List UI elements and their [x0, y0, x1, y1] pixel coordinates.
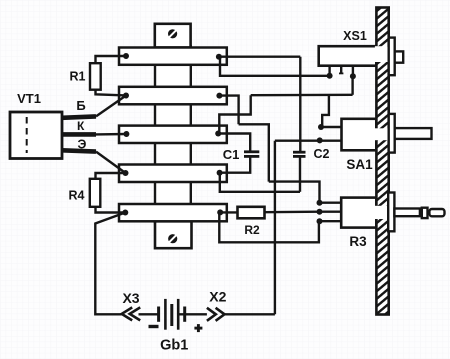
capacitor C1	[218, 134, 259, 173]
terminal strip bar5	[119, 204, 227, 221]
wire bar1 right dot to descender of XS1 line	[219, 56, 300, 58]
wire battery to X2 connector	[178, 313, 207, 315]
chassis panel hatched	[375, 8, 390, 315]
node XS1 pin3	[350, 73, 356, 79]
svg-text:Gb1: Gb1	[160, 338, 188, 354]
resistor R1	[90, 56, 126, 95]
XS1 pin 3	[352, 66, 354, 77]
svg-text:R1: R1	[70, 70, 86, 84]
svg-text:VT1: VT1	[17, 91, 41, 106]
svg-text:C2: C2	[314, 147, 330, 161]
label plus	[194, 324, 202, 332]
top screw	[168, 29, 177, 38]
R3 shaft collar	[422, 208, 428, 218]
connector XS1 body	[319, 46, 377, 65]
wire horizontal y114.5 with risers	[219, 95, 250, 133]
wire battery minus from bar5 left dot	[95, 213, 125, 315]
node SA1 top	[318, 124, 324, 130]
R3 knob tip	[429, 209, 444, 216]
wire base lead to bar2	[96, 96, 126, 117]
resistor R4	[90, 173, 126, 213]
svg-text:Э: Э	[78, 138, 87, 152]
node bar1 right	[216, 54, 222, 60]
wire C2 bottom lead	[299, 156, 301, 191]
node SA1 bottom	[317, 137, 323, 143]
node bar3 left	[123, 131, 129, 137]
wire jog to SA1 top terminal	[322, 95, 329, 127]
svg-text:SA1: SA1	[346, 157, 373, 172]
XS1 mounting flange	[389, 38, 395, 76]
variable resistor R3 body	[341, 198, 376, 228]
terminal strip bar4	[119, 165, 227, 183]
wire X2 to plus riser	[225, 313, 275, 315]
switch SA1 body	[342, 119, 377, 151]
XS1 pin 2	[340, 66, 342, 74]
wire SA1 top terminal to box	[321, 126, 342, 128]
wire bar4 dot down and right emitter line	[220, 173, 300, 192]
node bar4 right	[217, 170, 223, 176]
svg-text:R3: R3	[349, 234, 367, 249]
top mounting plate	[155, 24, 191, 48]
node R3 middle	[317, 209, 323, 215]
terminal strip bar1	[119, 48, 227, 65]
svg-text:R4: R4	[69, 189, 85, 203]
terminal strip bar3	[119, 126, 227, 143]
wire XS1 right pin down to switch line	[351, 76, 353, 95]
wire R3 middle terminal	[320, 210, 342, 212]
svg-text:C1: C1	[223, 147, 240, 162]
node bar3 right	[215, 131, 221, 137]
svg-text:X2: X2	[209, 289, 226, 305]
node R3 top	[317, 200, 323, 206]
terminal strip bar2	[119, 87, 227, 105]
battery GB1 cells	[159, 299, 185, 330]
wire R3 top terminal	[320, 201, 342, 203]
wire battery to X3 connector	[139, 313, 159, 315]
R3 shaft	[394, 209, 420, 217]
transistor VT1	[10, 112, 96, 159]
wire y124.3 across to R3 top riser	[239, 124, 269, 181]
wire battery plus riser	[274, 141, 276, 315]
SA1 mounting flange	[389, 114, 395, 153]
wire emitter lead to bar4	[96, 152, 126, 173]
svg-text:X3: X3	[122, 290, 139, 306]
node XS1 pin1	[327, 73, 333, 79]
node bar2 left	[123, 93, 129, 99]
label minus	[149, 325, 159, 328]
bottom screw	[168, 234, 177, 243]
mounting board vertical strip	[155, 47, 191, 223]
connector X3 chevrons	[122, 307, 141, 320]
R3 mounting flange	[388, 193, 394, 232]
capacitor C2	[293, 152, 306, 156]
wire bar1 dot down and right to XS1 left pin	[220, 57, 330, 76]
wire horizontal collector line y95	[251, 94, 353, 97]
wire R3 top terminal path	[269, 182, 320, 203]
wire collector lead to bar3	[96, 133, 126, 136]
node bar2 right	[216, 93, 222, 99]
svg-text:XS1: XS1	[343, 29, 367, 43]
wire bar5 right dot down loop to R3 bottom	[219, 212, 319, 242]
bottom mounting plate	[155, 221, 192, 248]
node R3 bottom	[317, 218, 323, 224]
node bar4 left	[123, 170, 129, 176]
connector X2 chevrons	[207, 308, 225, 321]
XS1 bushing nub	[395, 51, 404, 62]
SA1 toggle shaft	[395, 128, 432, 139]
wire R3 bottom terminal	[320, 220, 342, 222]
resistor R2	[220, 207, 319, 219]
terminal dots	[122, 53, 356, 224]
wire vertical from bar1 wire down to C2 top plate	[299, 57, 301, 152]
svg-text:К: К	[77, 119, 85, 133]
XS1 pin 1	[328, 66, 330, 76]
wire SA1 bottom terminal line	[275, 139, 342, 141]
node bar5 right	[217, 209, 223, 215]
svg-text:R2: R2	[244, 223, 260, 237]
node bar5 left	[122, 210, 128, 216]
wire bar2 right dot jog down	[219, 96, 238, 125]
node bar1 left	[123, 53, 129, 59]
svg-text:Б: Б	[76, 98, 85, 113]
